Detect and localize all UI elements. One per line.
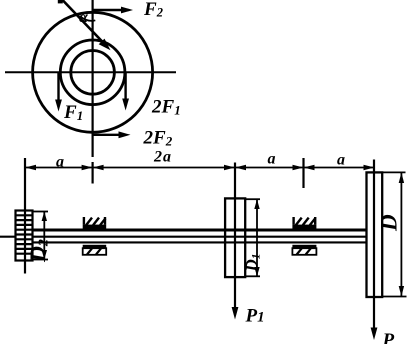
D2 dimension xyxy=(33,212,49,260)
tick at second bearing xyxy=(302,158,304,188)
force 2F2 arrow xyxy=(93,131,131,138)
pulley outer circle xyxy=(33,12,153,132)
bearing 2 upper xyxy=(292,217,316,229)
label T xyxy=(58,0,63,3)
D1 dimension xyxy=(245,199,260,276)
bearing 1 upper xyxy=(83,217,107,229)
wheel horizontal axis xyxy=(5,71,176,73)
tick at wheel axis xyxy=(91,162,93,184)
wheel vertical axis xyxy=(91,0,93,157)
svg-text:a: a xyxy=(337,152,345,169)
dimension line a / 2a / a / a xyxy=(25,167,375,169)
shaft bottom line xyxy=(33,241,367,243)
belt tension line T xyxy=(63,0,111,50)
svg-text:D: D xyxy=(377,214,402,232)
bearing 2 lower xyxy=(292,245,316,255)
force P arrow xyxy=(371,328,378,341)
left pulley D2 (hatched) xyxy=(16,211,33,261)
svg-text:a: a xyxy=(268,151,276,168)
svg-text:P: P xyxy=(382,330,395,344)
svg-text:P1: P1 xyxy=(245,306,265,327)
svg-text:α: α xyxy=(79,9,89,26)
svg-text:a: a xyxy=(56,154,64,171)
middle pulley axis / tick / P1 line xyxy=(234,163,236,312)
right pulley D xyxy=(367,172,383,297)
right pulley axis / P line xyxy=(373,160,375,333)
angle arc xyxy=(80,16,96,21)
D dimension xyxy=(382,172,406,296)
svg-text:2a: 2a xyxy=(153,149,172,166)
pulley inner circle xyxy=(71,51,115,95)
shaft top line xyxy=(33,228,367,231)
force P1 arrow xyxy=(232,307,239,320)
force 2F1 arrow xyxy=(122,72,129,110)
force F2 arrow xyxy=(93,7,133,14)
pulley middle circle xyxy=(60,40,125,105)
dim arrowheads xyxy=(25,165,36,170)
shaft center line xyxy=(0,236,367,238)
left pulley axis / extension line xyxy=(24,158,26,274)
bearing 1 lower xyxy=(83,245,107,255)
force F1 arrow xyxy=(55,72,62,111)
middle pulley D1 xyxy=(225,198,245,277)
